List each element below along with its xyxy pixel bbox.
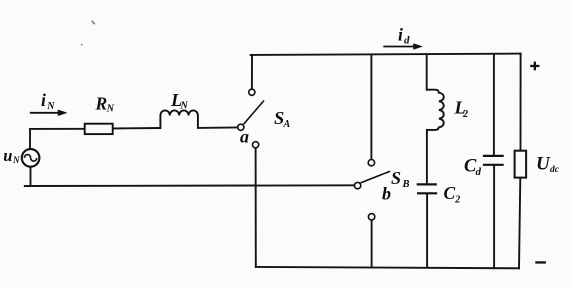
wire inductor to SA moving contact <box>198 126 238 129</box>
wire Udc to bottom rail <box>519 178 520 269</box>
svg-text:i: i <box>398 25 403 45</box>
wire source top left vertical <box>29 129 31 150</box>
label SB <box>391 168 410 190</box>
label L2 <box>454 98 469 120</box>
label id <box>398 25 410 47</box>
source uN circle <box>22 149 40 167</box>
wire resistor to inductor <box>113 127 161 130</box>
switch SA moving contact circle <box>238 124 244 130</box>
wire bottom horizontal source to SB <box>25 184 355 187</box>
wire SB lower contact down <box>371 220 373 268</box>
svg-text:d: d <box>404 34 410 46</box>
svg-text:d: d <box>476 166 482 178</box>
svg-text:N: N <box>106 103 115 114</box>
wire L2 to C2 <box>426 130 428 184</box>
switch SA node a contact circle <box>253 142 259 148</box>
svg-text:U: U <box>536 153 551 174</box>
switch SB upper contact circle <box>368 160 374 166</box>
label LN <box>170 90 189 111</box>
svg-text:C: C <box>444 183 456 203</box>
wire L2 branch top <box>426 54 428 89</box>
svg-text:N: N <box>12 155 20 165</box>
inductor L2 <box>427 90 444 130</box>
resistor RN <box>85 124 113 134</box>
svg-text:dc: dc <box>550 165 560 175</box>
wire Cd branch top <box>493 54 495 155</box>
label iN <box>41 90 55 112</box>
current arrow iN <box>30 110 67 116</box>
minus terminal <box>535 261 546 263</box>
scan speck 2 <box>81 44 82 46</box>
wire C2 to bottom rail <box>426 194 428 268</box>
svg-text:B: B <box>402 179 410 190</box>
svg-text:A: A <box>283 119 291 130</box>
wire node a vertical down <box>255 148 257 267</box>
wire source bottom vertical <box>30 166 32 186</box>
capacitor Cd <box>483 156 504 165</box>
label C2 <box>444 183 461 206</box>
svg-text:u: u <box>3 146 12 165</box>
plus terminal <box>530 62 539 71</box>
switch SA upper contact circle <box>249 89 255 95</box>
load box Udc <box>515 151 527 178</box>
switch SB blade <box>361 171 391 183</box>
switch SA blade <box>244 101 265 125</box>
label RN <box>95 93 115 114</box>
svg-text:2: 2 <box>454 195 460 206</box>
wire left top horizontal to resistor <box>30 128 85 130</box>
switch SB node b contact circle <box>368 214 374 220</box>
svg-text:S: S <box>391 168 401 188</box>
capacitor C2 <box>417 184 438 193</box>
svg-text:i: i <box>41 90 46 110</box>
svg-text:b: b <box>382 183 391 203</box>
wire Cd to bottom rail <box>493 166 495 269</box>
wire SA upper contact to top rail <box>251 55 253 89</box>
label uN <box>3 146 20 165</box>
inductor LN <box>160 110 198 128</box>
svg-text:2: 2 <box>462 109 468 120</box>
source uN sine <box>24 155 36 162</box>
svg-text:N: N <box>46 101 55 112</box>
current arrow id <box>383 44 422 50</box>
svg-text:R: R <box>95 93 108 113</box>
wire Udc branch top <box>520 54 522 151</box>
wire top rail <box>251 54 521 55</box>
label Cd <box>464 156 482 177</box>
wire bottom rail <box>256 267 519 268</box>
svg-text:a: a <box>240 127 249 147</box>
wire SB upper contact to top rail <box>370 54 372 159</box>
svg-text:N: N <box>180 100 189 111</box>
scan speck 1 <box>92 21 95 25</box>
label Udc <box>536 153 560 175</box>
label SA <box>274 108 291 130</box>
switch SB moving contact circle <box>354 182 360 188</box>
